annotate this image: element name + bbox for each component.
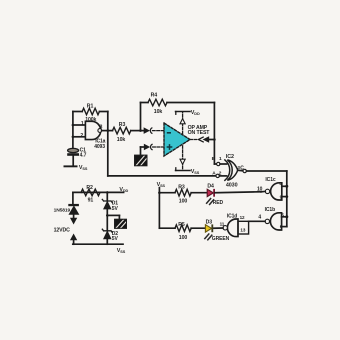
svg-text:RED: RED bbox=[213, 200, 224, 206]
svg-text:4093: 4093 bbox=[94, 144, 105, 150]
node junction R4 to inverting input bbox=[139, 129, 142, 132]
resistor R5 100 (green LED series) bbox=[175, 225, 191, 232]
wire node C vertical feed to inverters bbox=[286, 171, 288, 227]
nand gate IC1c (left facing) bbox=[271, 183, 282, 200]
Vdd terminal bar of op-amp bbox=[176, 111, 191, 113]
wire node A run into XOR input A with terminal circle bbox=[108, 175, 216, 177]
wire node B vertical drop bbox=[213, 140, 215, 165]
node junction input 2 on left rail bbox=[72, 136, 75, 139]
wire feedback vertical to op-amp output node bbox=[213, 103, 215, 140]
svg-text:2: 2 bbox=[219, 171, 222, 177]
wire Vdd rail of supply bbox=[73, 191, 124, 193]
plus sign at non-inverting input bbox=[167, 145, 171, 149]
svg-text:IC1d: IC1d bbox=[227, 214, 237, 220]
svg-text:13: 13 bbox=[240, 228, 245, 233]
common terminal box at supply midpoint bbox=[115, 219, 127, 228]
wire loop tying IC1d pins 12 and 13 bbox=[238, 221, 249, 234]
svg-text:R2: R2 bbox=[86, 185, 93, 191]
svg-text:R3: R3 bbox=[178, 184, 185, 190]
xor gate IC2 (4030) body bbox=[227, 160, 237, 180]
dashed Vss supply lead with arrow bbox=[182, 146, 184, 170]
op-amp U1 under test (triangle) bbox=[164, 123, 190, 156]
node junction C feed at IC1c bbox=[285, 185, 288, 188]
node junction R2 and D1 bbox=[106, 191, 109, 194]
svg-text:R5: R5 bbox=[178, 222, 185, 228]
svg-text:10k: 10k bbox=[117, 137, 126, 143]
node junction IC1a output bbox=[107, 129, 110, 132]
svg-text:1: 1 bbox=[81, 121, 84, 127]
capacitor C1 (4.7uF electrolytic) bbox=[68, 148, 79, 152]
wire Vss rail of supply bbox=[73, 243, 123, 245]
svg-text:R1: R1 bbox=[87, 104, 94, 110]
svg-text:3: 3 bbox=[100, 124, 103, 130]
node junction red row bbox=[158, 191, 161, 194]
svg-text:10k: 10k bbox=[154, 109, 163, 115]
zener diode D1 5V bbox=[106, 192, 108, 201]
wire IC1d output to green LED bbox=[213, 227, 223, 229]
common terminal box at op-amp non-inverting input bbox=[135, 155, 147, 166]
svg-text:ON TEST: ON TEST bbox=[188, 130, 211, 136]
nand gate IC1a (4093) body bbox=[85, 121, 100, 139]
svg-text:D4: D4 bbox=[207, 184, 214, 190]
svg-text:IC2: IC2 bbox=[226, 154, 234, 160]
dashed lead to op-amp inverting input bbox=[153, 130, 165, 132]
wire red row LED to IC1c output bbox=[215, 191, 261, 194]
svg-text:4: 4 bbox=[258, 215, 261, 221]
resistor R1 bbox=[82, 108, 99, 115]
connector plug into inverting input (arrow and socket) bbox=[144, 128, 149, 133]
svg-text:100: 100 bbox=[179, 235, 188, 241]
node junction green row corner bbox=[159, 227, 175, 229]
nand gate IC1b (left facing) bbox=[270, 213, 281, 230]
svg-text:R3: R3 bbox=[119, 122, 126, 128]
wire into XOR input B with terminal circle bbox=[214, 163, 216, 165]
dashed lead to op-amp non-inverting input bbox=[153, 146, 164, 148]
connector socket and plug at op-amp output (double chevron) bbox=[198, 137, 203, 142]
svg-text:5V: 5V bbox=[112, 206, 119, 212]
svg-text:R4: R4 bbox=[151, 92, 158, 98]
wire op-amp output to node B vertical bbox=[208, 139, 215, 141]
light rays of D3 bbox=[205, 234, 212, 240]
wire red row from rail to R3 bbox=[159, 192, 175, 194]
wire left rail of oscillator (IC1a input rail) bbox=[72, 112, 74, 149]
svg-text:11: 11 bbox=[220, 222, 225, 227]
Vss terminal bar of op-amp bbox=[176, 170, 191, 172]
svg-text:91: 91 bbox=[88, 197, 94, 203]
svg-text:12VDC: 12VDC bbox=[54, 228, 71, 234]
nand gate IC1d (left facing) bbox=[227, 219, 238, 237]
svg-text:IC1c: IC1c bbox=[265, 177, 275, 183]
wire Vss rail for LEDs bbox=[158, 188, 160, 229]
12VDC input plug arrow upper bbox=[71, 218, 77, 223]
ground Vss below C1 bbox=[64, 165, 78, 167]
resistor R4 10k feedback bbox=[140, 103, 142, 131]
svg-text:GREEN: GREEN bbox=[212, 236, 230, 242]
resistor R2 91 ohms bbox=[81, 189, 100, 196]
wire IC1a input 1 bbox=[73, 124, 86, 126]
svg-text:4.7: 4.7 bbox=[80, 152, 87, 158]
wire IC1c input stubs to node C feed bbox=[282, 185, 287, 187]
wire left branch from Vdd rail bbox=[72, 192, 74, 204]
wire IC2 output to node C circle bbox=[238, 169, 243, 172]
svg-text:2: 2 bbox=[80, 133, 83, 139]
svg-text:IC1b: IC1b bbox=[265, 207, 275, 213]
dashed Vdd supply lead with arrow bbox=[182, 112, 184, 134]
svg-text:1N5819: 1N5819 bbox=[54, 207, 71, 213]
resistor R3 10k bbox=[113, 127, 131, 134]
svg-text:100: 100 bbox=[179, 198, 188, 204]
led D3 green bbox=[205, 225, 211, 232]
node junction output and feedback bbox=[213, 138, 216, 141]
wire right rail from R1 down to IC1a output and node A run bbox=[107, 112, 109, 176]
zener diode D2 5V bbox=[106, 215, 108, 230]
resistor R3 100 (red LED series) bbox=[175, 189, 191, 196]
connector plug into non-inverting input (arrow and socket) bbox=[144, 145, 149, 150]
svg-text:1: 1 bbox=[219, 156, 222, 162]
wire IC1b input stubs to node C feed bbox=[282, 216, 287, 218]
dashed lead from op-amp output bbox=[190, 139, 198, 141]
wire IC1a input 2 bbox=[73, 136, 86, 138]
svg-text:5V: 5V bbox=[112, 236, 119, 242]
wire zener midpoint to common box bbox=[107, 214, 119, 216]
svg-text:4030: 4030 bbox=[226, 182, 238, 188]
12VDC input plug arrow lower bbox=[71, 235, 77, 240]
light rays of D4 bbox=[207, 199, 214, 205]
wire IC1b output to IC1d inputs bbox=[249, 220, 265, 222]
node junction input 1 on left rail bbox=[72, 124, 75, 127]
led D4 red bbox=[207, 189, 213, 196]
diode D5 1N5819 (reverse protection) bbox=[68, 204, 79, 206]
minus sign at inverting input bbox=[167, 132, 171, 134]
wire IC1a pin3 output to R3 bbox=[102, 130, 113, 132]
wire common box to non-inverting connector bbox=[140, 147, 142, 155]
node junction between zeners bbox=[106, 214, 109, 217]
node junction C feed at IC1b bbox=[285, 215, 288, 218]
svg-text:D3: D3 bbox=[206, 219, 213, 225]
svg-text:12: 12 bbox=[240, 215, 245, 220]
